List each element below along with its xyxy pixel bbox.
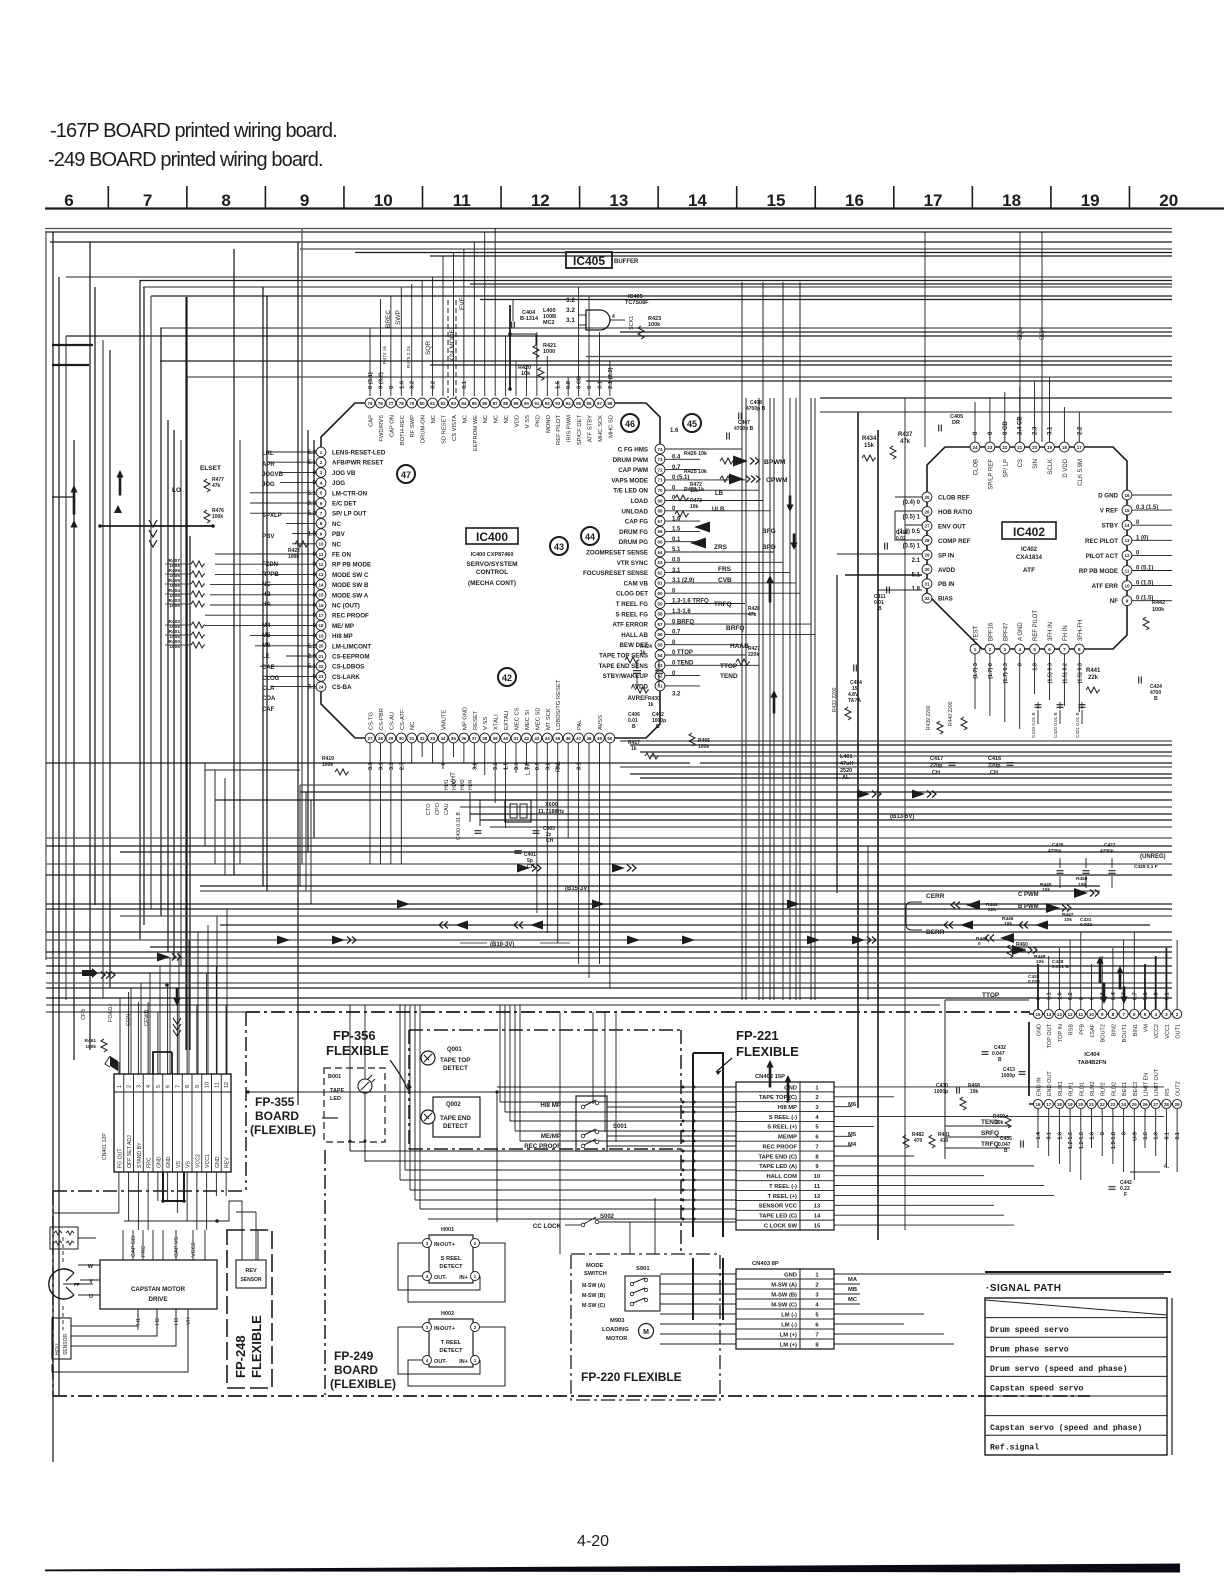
svg-text:LED: LED [330,1096,341,1102]
svg-text:7: 7 [175,1085,181,1088]
svg-text:LM (+): LM (+) [780,1332,797,1338]
svg-text:R439 2200: R439 2200 [926,705,932,730]
svg-text:1.6: 1.6 [670,428,679,434]
svg-text:M-SW (C): M-SW (C) [582,1303,605,1309]
svg-text:BPD: BPD [762,544,776,551]
net labels CTO CPO CAU [426,802,450,815]
svg-text:0.8: 0.8 [566,380,572,389]
svg-text:AVDD: AVDD [631,683,649,690]
svg-text:CAP FG: CAP FG [625,519,648,526]
capacitor C407 [727,420,754,440]
IC402 left pin wires [837,497,922,590]
svg-text:RP PB MODE: RP PB MODE [332,562,371,569]
svg-text:PB IN: PB IN [938,581,955,588]
svg-text:90: 90 [524,401,530,406]
capacitor C435 [998,1136,1023,1154]
signal path legend title [986,1283,1061,1294]
svg-text:FLEXIBLE: FLEXIBLE [736,1044,799,1059]
svg-text:3.1: 3.1 [378,761,384,770]
net labels TEND SRFQ TRFQ [945,1000,1010,1159]
svg-text:(B15-3V): (B15-3V) [565,886,589,892]
svg-text:100k: 100k [288,554,299,560]
svg-text:3FH-FH: 3FH-FH [1078,620,1084,641]
IC402 center label [1002,522,1056,574]
svg-text:ZRS: ZRS [714,544,728,551]
svg-text:12: 12 [814,1194,820,1200]
svg-text:CN403 8P: CN403 8P [752,1261,779,1267]
svg-text:6: 6 [64,191,73,210]
IC402 bottom values vertical [973,663,1083,683]
switch S001 box [576,1096,628,1151]
svg-text:MODE SW B: MODE SW B [332,582,369,589]
svg-text:R440 2200: R440 2200 [948,701,954,726]
svg-text:VM: VM [1144,1024,1150,1033]
svg-text:68: 68 [657,509,663,514]
svg-text:PKD: PKD [535,415,541,427]
svg-text:2: 2 [127,1085,133,1088]
svg-text:MOTOR: MOTOR [606,1336,628,1342]
svg-text:5.2: 5.2 [308,450,317,456]
IC402 left pin names [938,495,972,603]
arrow BPWM [733,456,786,467]
svg-text:C416: C416 [988,756,1001,762]
svg-text:21: 21 [1089,1102,1095,1107]
svg-text:CAP PWM: CAP PWM [618,467,648,474]
svg-text:HI8 MP: HI8 MP [540,1102,561,1109]
svg-text:5: 5 [156,1085,162,1088]
svg-text:HI8 MP: HI8 MP [778,1105,797,1111]
svg-text:CN401 12P: CN401 12P [102,1133,108,1160]
resistor R469 [993,1114,1011,1128]
svg-text:SWP: SWP [395,310,402,325]
svg-text:V SS: V SS [525,415,531,428]
svg-text:22: 22 [1002,445,1008,450]
svg-text:100k: 100k [1152,607,1165,613]
resistor R424 [625,644,652,663]
svg-text:TTOP: TTOP [982,992,1000,999]
svg-text:0.022: 0.022 [1080,922,1092,928]
hall sensor H002 [423,1311,480,1367]
title line 2 [48,149,323,171]
svg-text:X24 MODEL: X24 MODEL [449,325,456,362]
svg-text:VCC2: VCC2 [195,1154,201,1168]
svg-text:BREC: BREC [385,310,392,328]
net label CVB [718,577,732,584]
svg-text:VCC1: VCC1 [205,1154,211,1168]
svg-text:0.7: 0.7 [1132,992,1138,1000]
svg-text:88: 88 [503,401,509,406]
net label B13-5V [890,814,914,820]
resistor R421 [508,305,556,391]
hall sensor block [52,1309,188,1372]
svg-text:78: 78 [399,401,405,406]
svg-text:46: 46 [566,736,572,741]
svg-text:10k: 10k [690,504,699,510]
svg-text:ATF: ATF [1023,567,1035,574]
IC402 left values [898,500,921,593]
svg-text:MHC SD: MHC SD [608,415,614,438]
svg-text:Drum servo (speed and phase): Drum servo (speed and phase) [990,1364,1128,1374]
svg-text:SRFQ: SRFQ [981,1130,999,1137]
svg-text:HI8 MP: HI8 MP [332,633,353,640]
svg-text:3.1: 3.1 [1048,426,1054,435]
IC400 bottom pin row [365,733,615,743]
svg-text:COMP REF: COMP REF [938,538,971,545]
svg-text:TTOP: TTOP [720,663,738,670]
svg-text:SQR: SQR [425,341,432,355]
svg-text:36: 36 [461,736,467,741]
svg-text:SQU: SQU [1018,327,1024,340]
test point TP47 [397,465,415,483]
svg-text:BIN2: BIN2 [1111,1024,1117,1036]
svg-text:CON: CON [126,1014,132,1026]
IC400 top pin row [365,398,615,408]
IC400 left pin column [316,447,326,691]
svg-text:10: 10 [1124,583,1130,588]
svg-text:GND: GND [215,1156,221,1168]
svg-text:26: 26 [1142,1102,1148,1107]
svg-text:LOAD: LOAD [630,498,648,505]
arrow BPD [690,538,776,552]
svg-text:17: 17 [1046,1102,1052,1107]
svg-text:3.2: 3.2 [472,762,478,770]
svg-text:Capstan speed servo: Capstan speed servo [990,1384,1083,1394]
svg-text:(1.5) 0.2: (1.5) 0.2 [1062,663,1068,683]
svg-text:1.0: 1.0 [1154,1132,1160,1140]
svg-text:VAPS MODE: VAPS MODE [611,477,648,484]
dash-dot FP-249 boundary [325,1030,681,1395]
svg-text:TAPE END: TAPE END [440,1115,471,1122]
left thick stub wires [52,297,215,1050]
svg-text:LM (-): LM (-) [781,1312,797,1318]
svg-text:100k: 100k [322,762,333,768]
svg-text:R474 1k: R474 1k [382,346,388,364]
svg-text:TA84B2FN: TA84B2FN [1078,1060,1107,1066]
svg-text:28: 28 [1164,1102,1170,1107]
svg-text:18: 18 [1062,445,1068,450]
right pin stub wires IC400 [665,449,815,686]
IC400 bottom pin names vertical [369,679,604,730]
svg-text:SP/LP REF: SP/LP REF [988,459,994,490]
op-amp U-IC402 outline [927,447,1127,649]
svg-text:IC404: IC404 [1084,1052,1100,1058]
svg-text:2.3: 2.3 [1033,426,1039,435]
svg-text:87: 87 [493,401,499,406]
svg-text:0: 0 [587,386,593,389]
title line 1 [50,120,337,142]
svg-text:IC400: IC400 [476,530,508,544]
resistors R482 R481 [903,1132,950,1148]
svg-text:MEC SI: MEC SI [525,710,531,730]
svg-text:NC: NC [332,521,341,528]
svg-text:LIMIT EN: LIMIT EN [1144,1073,1150,1096]
svg-text:(1.7) 0: (1.7) 0 [988,663,994,679]
svg-text:AL: AL [842,775,850,781]
svg-text:ME/MP: ME/MP [778,1135,797,1141]
svg-text:B: B [656,724,660,730]
net labels HM1-HM4 [444,779,474,790]
svg-text:PAL: PAL [577,719,583,730]
svg-text:0.1: 0.1 [1175,1132,1181,1140]
svg-text:PAL: PAL [556,760,562,772]
svg-text:CLOB: CLOB [974,459,980,475]
svg-text:24: 24 [1121,1102,1127,1107]
svg-text:CPWM: CPWM [766,477,788,484]
ruler grid scale 6-20 [45,186,1224,210]
svg-text:-167P BOARD printed wiring boa: -167P BOARD printed wiring board. [50,120,337,142]
svg-text:LDBOS/TG RESET: LDBOS/TG RESET [556,679,562,730]
svg-text:10k: 10k [521,371,531,377]
svg-text:82: 82 [441,401,447,406]
svg-text:1.2-1.6: 1.2-1.6 [1079,1132,1085,1149]
svg-text:GND: GND [784,1272,797,1278]
IC400 right pin column [655,444,665,691]
down arrows mid column [786,496,797,551]
svg-text:JOG: JOG [332,480,345,487]
photo-transistor Q001 [421,1047,470,1072]
svg-text:14: 14 [814,1214,821,1220]
svg-text:B: B [632,724,636,730]
svg-text:8: 8 [221,191,230,210]
svg-text:26: 26 [924,509,930,514]
svg-text:M-SW (A): M-SW (A) [771,1282,797,1288]
wire bus top band [45,229,1172,413]
svg-text:SD RESET: SD RESET [442,415,448,444]
svg-text:REC PROOF: REC PROOF [524,1143,561,1150]
svg-text:0: 0 [1036,997,1042,1000]
svg-text:OUT+: OUT+ [440,1326,455,1332]
svg-text:C420 0.01 B: C420 0.01 B [1053,712,1058,738]
svg-text:MT SCK: MT SCK [546,708,552,730]
svg-text:H2: H2 [155,1318,161,1325]
svg-text:CAP: CAP [369,415,375,427]
svg-text:MEC SD: MEC SD [535,707,541,730]
svg-text:CAU: CAU [444,803,450,815]
svg-text:1.8-1.8: 1.8-1.8 [1111,1132,1117,1149]
svg-text:R441: R441 [1086,668,1101,674]
svg-text:LM (+): LM (+) [780,1342,797,1348]
svg-text:REC PROOF: REC PROOF [332,613,369,620]
svg-text:3.2: 3.2 [566,307,575,314]
svg-text:4700p B: 4700p B [734,426,754,432]
svg-text:89: 89 [514,401,520,406]
svg-text:GND: GND [166,1156,172,1168]
svg-text:54: 54 [657,653,663,658]
net label BRFQ stub [726,625,744,632]
svg-text:3.2: 3.2 [566,297,575,304]
IC400 left pin outside values [308,450,317,691]
svg-text:28: 28 [924,538,930,543]
svg-text:AVSS: AVSS [598,715,604,730]
resistor R420 [518,365,544,381]
svg-text:RLM2: RLM2 [1090,1081,1096,1096]
svg-text:0.022 B: 0.022 B [1052,964,1069,970]
net labels CON CFWD FOADJ [81,1004,150,1026]
svg-text:OFF SET ADJ: OFF SET ADJ [127,1135,133,1168]
connector CN401 [102,1074,231,1172]
svg-text:CAP VS: CAP VS [174,1237,180,1257]
resistor R419 [322,756,349,775]
svg-text:SIN: SIN [1033,459,1039,469]
svg-text:SENSOR: SENSOR [63,1333,69,1355]
svg-text:43: 43 [554,542,564,552]
svg-text:RPPB: RPPB [262,572,279,578]
svg-text:20: 20 [1032,445,1038,450]
svg-text:CTO: CTO [426,803,432,815]
svg-text:(1.7) 0.3: (1.7) 0.3 [1003,663,1009,683]
svg-text:IN+: IN+ [459,1359,468,1365]
svg-text:61: 61 [657,581,663,586]
IC402 top pin names vertical [974,458,1084,489]
svg-text:STBY/WAKEUP: STBY/WAKEUP [603,673,648,680]
svg-text:IC405: IC405 [573,254,605,268]
svg-text:33: 33 [430,736,436,741]
svg-text:86: 86 [482,401,488,406]
svg-text:35: 35 [451,736,457,741]
svg-text:100k: 100k [212,514,223,520]
svg-text:LM-LIMCONT: LM-LIMCONT [332,643,371,650]
svg-text:LM (-): LM (-) [781,1322,797,1328]
svg-text:RLP1: RLP1 [1069,1082,1075,1096]
svg-text:3.1: 3.1 [389,761,395,770]
svg-text:5.2: 5.2 [308,511,317,517]
svg-text:CLK 5.9M: CLK 5.9M [1078,459,1084,486]
svg-text:UNLOAD: UNLOAD [622,508,649,515]
svg-text:H001: H001 [441,1227,454,1233]
svg-text:10: 10 [1089,1012,1095,1017]
svg-text:22k: 22k [1088,675,1099,681]
capacitor C425 C426 C427 cluster [1048,842,1158,888]
svg-text:CS-AU: CS-AU [389,712,395,730]
svg-text:END OUT: END OUT [1047,1071,1053,1096]
svg-text:SP IN: SP IN [938,552,955,559]
svg-text:30: 30 [399,736,405,741]
svg-text:0.2: 0.2 [1068,992,1074,1000]
IC400 top pin names vertical [369,415,615,452]
svg-text:12: 12 [224,1082,230,1088]
svg-text:AVREF: AVREF [627,695,648,702]
svg-text:LENS-RESET-LED: LENS-RESET-LED [332,450,386,457]
svg-text:REF PILOT: REF PILOT [556,415,562,445]
svg-text:C FG HMS: C FG HMS [618,447,648,454]
svg-text:70: 70 [657,488,663,493]
test point TP45 [683,414,701,432]
svg-text:R425 10k: R425 10k [684,469,707,475]
svg-text:(0.5) 1: (0.5) 1 [903,543,921,549]
svg-text:HAAB: HAAB [730,643,749,650]
svg-text:BOUT2: BOUT2 [1101,1024,1107,1042]
arrow CPWM [729,474,788,485]
svg-text:Ref.signal: Ref.signal [990,1442,1039,1452]
svg-text:10k: 10k [1018,948,1027,954]
svg-text:CONTROL: CONTROL [476,569,508,576]
svg-text:SCLK: SCLK [1048,459,1054,475]
test point TP44 [581,527,599,545]
svg-text:H3: H3 [174,1318,180,1325]
svg-text:BFG: BFG [762,528,776,535]
IC404 bottom values vertical [1036,1131,1181,1149]
svg-text:MA: MA [848,1277,858,1283]
svg-text:0.7: 0.7 [1122,992,1128,1000]
svg-text:RLD1: RLD1 [1079,1082,1085,1096]
svg-text:STBY: STBY [1101,523,1118,530]
page number [577,1533,609,1550]
svg-text:FP-249: FP-249 [334,1349,374,1363]
svg-text:3.1: 3.1 [1164,992,1170,1000]
svg-text:CPO: CPO [435,802,441,815]
svg-text:BOARD: BOARD [255,1109,299,1123]
capstan box top labels [123,1230,205,1260]
svg-text:LO: LO [172,487,181,494]
wires below CN401 [53,1172,256,1260]
svg-text:17: 17 [318,613,324,618]
svg-text:14: 14 [318,582,324,587]
svg-text:JOG VB: JOG VB [332,470,356,477]
svg-text:67: 67 [657,519,663,524]
svg-text:98: 98 [607,401,613,406]
IC402 bottom pin names vertical [974,610,1084,641]
svg-text:RLP2: RLP2 [1101,1082,1107,1096]
svg-text:220p: 220p [988,763,1001,769]
resistor R430 [635,687,660,708]
resistor R440 [948,701,967,730]
REV sensor box [236,1230,266,1288]
svg-text:LE: LE [262,654,270,660]
svg-text:R442: R442 [1152,600,1165,606]
svg-text:VH: VH [186,1317,192,1325]
capacitor C408 [739,400,766,420]
IC400 bottom outside values vertical [368,761,583,770]
svg-text:(FLEXIBLE): (FLEXIBLE) [250,1123,316,1137]
svg-text:16: 16 [318,603,324,608]
wires FP-220 area verticals [497,1012,655,1254]
svg-text:3.1: 3.1 [577,761,583,770]
svg-text:47: 47 [401,470,411,480]
svg-text:100k: 100k [698,744,709,750]
svg-text:R433 2200: R433 2200 [832,687,838,712]
svg-text:R434: R434 [862,436,877,442]
net label L.TR [526,761,532,775]
svg-text:47k: 47k [212,483,221,489]
svg-text:85: 85 [472,401,478,406]
svg-text:22: 22 [1100,1102,1106,1107]
svg-text:66: 66 [657,529,663,534]
svg-text:77: 77 [388,401,394,406]
svg-text:12: 12 [1124,553,1130,558]
svg-text:2.4 CB: 2.4 CB [1018,416,1024,435]
svg-text:1.4: 1.4 [1036,1131,1042,1140]
svg-text:TRFQ: TRFQ [714,601,732,608]
svg-text:23: 23 [318,674,324,679]
svg-text:FE ON: FE ON [332,552,351,559]
svg-text:19k: 19k [970,1089,979,1095]
svg-text:47k: 47k [748,612,757,618]
svg-text:ME/MP: ME/MP [541,1133,561,1140]
svg-text:FP-220 FLEXIBLE: FP-220 FLEXIBLE [581,1370,682,1384]
svg-text:CAF: CAF [262,707,275,713]
capacitor C404 [512,300,539,329]
svg-text:CN402 15P: CN402 15P [755,1074,785,1080]
svg-text:1k: 1k [631,746,637,752]
svg-text:(B10-3V): (B10-3V) [490,942,514,948]
wires above CN401 [119,966,226,1074]
svg-text:DRUM-ON: DRUM-ON [421,415,427,443]
resistor R461 [85,1038,107,1052]
svg-text:0.02: 0.02 [896,536,906,542]
svg-text:25: 25 [1132,1102,1138,1107]
svg-text:27: 27 [367,736,373,741]
svg-text:31: 31 [924,582,930,587]
